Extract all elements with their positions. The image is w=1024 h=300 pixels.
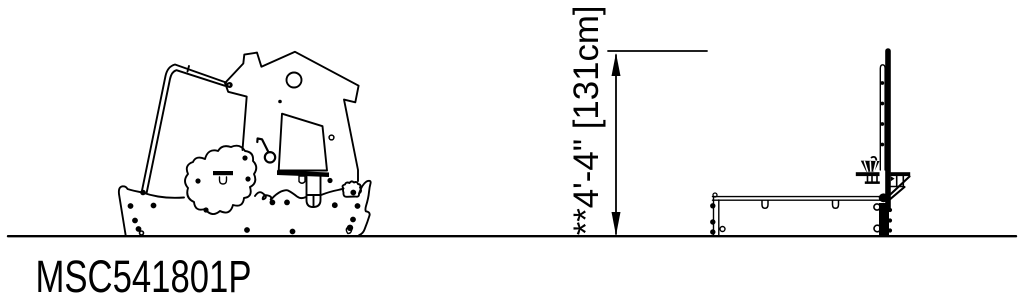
post ring 2 xyxy=(874,225,881,232)
flower dot xyxy=(350,190,356,196)
handrail base bolt xyxy=(140,190,146,196)
base bolt 4 xyxy=(136,226,142,232)
base bolt 2 xyxy=(151,203,157,209)
base foot curl xyxy=(346,227,351,234)
bush mouth u xyxy=(220,177,227,184)
handrail mount bolt xyxy=(228,83,232,87)
base bolt 5 xyxy=(140,231,144,235)
bench leg bolt 1 xyxy=(710,203,715,208)
post tube xyxy=(880,65,885,170)
house small dot B xyxy=(329,135,334,140)
dimension arrow top xyxy=(612,53,621,76)
bench leg hook xyxy=(720,227,725,232)
window circle xyxy=(287,73,302,88)
column bump 3 xyxy=(888,228,892,232)
dimension line xyxy=(615,55,617,234)
base bolt 13 xyxy=(355,203,361,209)
bracket tab xyxy=(891,176,895,181)
bush mouth bar xyxy=(213,171,233,175)
base bolt 14 xyxy=(350,217,356,223)
base bolt 11 xyxy=(332,202,338,208)
post ring 1 xyxy=(874,204,880,210)
base bolt 6 xyxy=(244,227,250,233)
bracket frame xyxy=(891,176,904,186)
brace diagonal 2 xyxy=(888,187,905,201)
door sill bar xyxy=(277,170,329,177)
bush cloud xyxy=(185,146,256,214)
base bolt 1 xyxy=(128,203,134,209)
rail hook 2 xyxy=(833,201,839,209)
wheel stand xyxy=(865,176,880,184)
base bolt 10 xyxy=(327,178,332,183)
door panel xyxy=(279,114,327,171)
base bolt 3 xyxy=(132,218,138,224)
svg-text:**4'-4" [131cm]: **4'-4" [131cm] xyxy=(567,5,606,235)
dimension extension line xyxy=(608,50,707,52)
column bump 2 xyxy=(888,218,892,222)
small latch below sill xyxy=(299,176,305,183)
rail end cap xyxy=(879,193,889,202)
eave bolt xyxy=(227,83,231,87)
bench leg cap xyxy=(713,193,717,197)
bench leg bolt 3 xyxy=(710,229,715,234)
pendant tube xyxy=(307,177,321,208)
base bolt 8 xyxy=(284,200,290,206)
shifter key xyxy=(257,139,275,163)
ground line xyxy=(8,235,1016,237)
post bolt 3 xyxy=(880,122,884,126)
bush bolt 2 xyxy=(242,155,247,160)
base bolt 15 xyxy=(347,225,353,231)
column bump 1 xyxy=(888,208,892,212)
dimension arrow bottom xyxy=(612,212,621,236)
bench leg left xyxy=(714,197,719,236)
shelf bar right xyxy=(891,172,911,176)
wheel cone xyxy=(861,157,880,172)
handrail tube xyxy=(142,65,227,194)
rail hook 1 xyxy=(762,201,768,209)
bush bolt 3 xyxy=(245,176,250,181)
svg-text:MSC541801P: MSC541801P xyxy=(36,251,252,300)
post bottom column xyxy=(879,203,889,237)
house small dot A xyxy=(278,100,282,104)
post main xyxy=(885,51,891,208)
bench rail xyxy=(713,197,885,201)
post bolt 4 xyxy=(880,143,884,147)
house outline xyxy=(225,52,359,181)
bush bolt 4 xyxy=(203,207,208,212)
boat base outline xyxy=(119,181,371,236)
bush bolt 1 xyxy=(195,178,200,183)
post bolt 1 xyxy=(880,81,884,85)
bench leg bolt 2 xyxy=(710,219,715,224)
base bolt 9 xyxy=(290,229,296,235)
post bolt 2 xyxy=(880,102,884,106)
brace diagonal 1 xyxy=(886,177,910,199)
shelf bar left xyxy=(856,172,880,176)
base bolt 7 xyxy=(270,200,276,206)
